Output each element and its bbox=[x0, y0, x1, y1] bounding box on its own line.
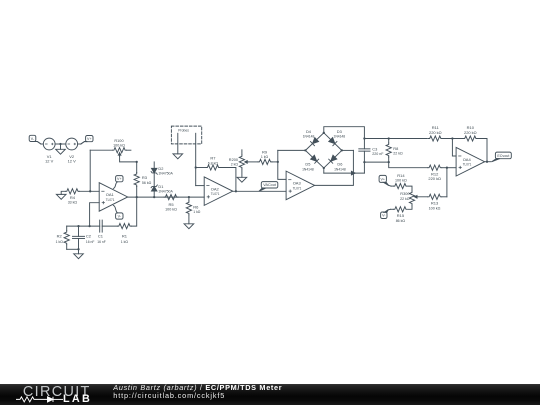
svg-text:1 kΩ: 1 kΩ bbox=[193, 209, 200, 214]
svg-text:TL071: TL071 bbox=[463, 162, 472, 167]
svg-text:1N4750A: 1N4750A bbox=[158, 189, 173, 194]
svg-text:1N4148: 1N4148 bbox=[302, 166, 314, 171]
svg-text:2 kΩ: 2 kΩ bbox=[231, 161, 238, 166]
svg-text:1 kΩ: 1 kΩ bbox=[261, 154, 268, 159]
svg-text:100 kΩ: 100 kΩ bbox=[395, 178, 407, 183]
svg-text:V+: V+ bbox=[117, 177, 122, 181]
svg-text:16 nF: 16 nF bbox=[86, 239, 95, 244]
svg-text:TL071: TL071 bbox=[211, 191, 220, 196]
svg-text:V-: V- bbox=[31, 137, 35, 141]
svg-text:86 kΩ: 86 kΩ bbox=[396, 218, 405, 223]
svg-text:100 kΩ: 100 kΩ bbox=[165, 207, 177, 212]
svg-text:22 kΩ: 22 kΩ bbox=[393, 150, 402, 155]
svg-text:1N4148: 1N4148 bbox=[334, 134, 346, 139]
svg-text:33 kΩ: 33 kΩ bbox=[68, 200, 77, 205]
svg-text:V+: V+ bbox=[87, 137, 92, 141]
svg-text:16 nF: 16 nF bbox=[97, 239, 106, 244]
svg-text:100 kΩ: 100 kΩ bbox=[429, 205, 441, 210]
svg-text:TL071: TL071 bbox=[106, 197, 115, 202]
svg-text:220 kΩ: 220 kΩ bbox=[464, 130, 477, 135]
svg-text:1 kΩ: 1 kΩ bbox=[56, 239, 63, 244]
svg-text:Probes: Probes bbox=[178, 128, 189, 133]
svg-text:1N4148: 1N4148 bbox=[303, 134, 315, 139]
svg-text:56 kΩ: 56 kΩ bbox=[142, 180, 151, 185]
svg-text:220 kΩ: 220 kΩ bbox=[429, 130, 442, 135]
svg-text:100 kΩ: 100 kΩ bbox=[113, 143, 125, 148]
svg-text:ECvout: ECvout bbox=[497, 154, 510, 158]
svg-text:12 V: 12 V bbox=[68, 159, 77, 164]
svg-text:12 V: 12 V bbox=[45, 159, 54, 164]
svg-text:V-: V- bbox=[382, 214, 386, 218]
svg-text:VACout: VACout bbox=[263, 183, 277, 187]
svg-text:220 nF: 220 nF bbox=[372, 151, 384, 156]
svg-text:1 kΩ: 1 kΩ bbox=[121, 239, 128, 244]
svg-text:6.8 kΩ: 6.8 kΩ bbox=[208, 160, 218, 165]
svg-text:1N4148: 1N4148 bbox=[334, 166, 346, 171]
svg-text:1N4750A: 1N4750A bbox=[158, 171, 173, 176]
svg-text:V+: V+ bbox=[381, 177, 386, 181]
svg-text:220 kΩ: 220 kΩ bbox=[428, 176, 441, 181]
svg-text:TL071: TL071 bbox=[293, 185, 302, 190]
svg-text:22 kΩ: 22 kΩ bbox=[400, 196, 409, 201]
svg-text:V-: V- bbox=[118, 214, 122, 218]
